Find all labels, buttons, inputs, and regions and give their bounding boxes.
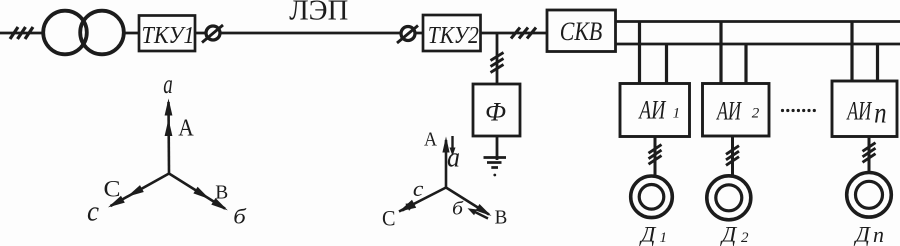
svg-text:n: n [873, 222, 884, 246]
svg-text:В: В [215, 182, 228, 204]
svg-text:б: б [233, 205, 247, 229]
svg-text:a: a [447, 143, 460, 174]
svg-text:Ф: Ф [485, 98, 506, 127]
svg-text:Д: Д [720, 222, 738, 246]
svg-text:с: с [413, 176, 424, 201]
svg-text:Д: Д [639, 222, 657, 246]
svg-text:n: n [874, 97, 887, 130]
svg-text:б: б [452, 199, 465, 220]
svg-text:ТКУ2: ТКУ2 [428, 22, 479, 49]
svg-text:2: 2 [741, 230, 749, 246]
svg-text:А: А [424, 130, 437, 151]
svg-text:С: С [104, 177, 121, 202]
svg-text:a: a [163, 69, 173, 99]
svg-text:С: С [382, 206, 396, 231]
svg-text:В: В [495, 207, 508, 229]
svg-text:АИ: АИ [716, 97, 742, 126]
svg-text:ЛЭП: ЛЭП [289, 0, 348, 27]
svg-text:АИ: АИ [846, 97, 872, 126]
svg-text:1: 1 [673, 106, 681, 122]
svg-text:АИ: АИ [638, 96, 666, 125]
svg-text:ТКУ1: ТКУ1 [142, 22, 195, 49]
svg-text:2: 2 [752, 106, 760, 122]
svg-text:1: 1 [660, 230, 668, 246]
svg-text:Д: Д [854, 222, 872, 246]
svg-text:А: А [178, 115, 194, 142]
svg-text:с: с [87, 196, 99, 228]
svg-text:СКВ: СКВ [560, 17, 603, 46]
